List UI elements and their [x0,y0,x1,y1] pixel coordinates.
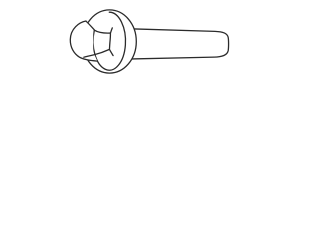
shaft fill [132,29,228,59]
flange outer ellipse [83,10,137,73]
hex base corner stub bottom [109,49,113,55]
shaft outline [132,29,228,59]
flange inner ring arc [93,12,125,70]
head face fill [70,21,97,61]
flange bolt line drawing [0,0,300,84]
hex facet edge and base outline [84,21,111,57]
hex base corner stub top [110,28,112,33]
head face outline [70,21,97,61]
